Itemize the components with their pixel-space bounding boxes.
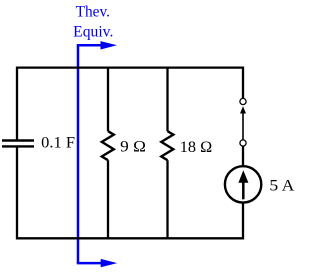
blue cut line vertical xyxy=(77,45,80,263)
capacitor 0.1 F xyxy=(2,141,34,147)
wire top xyxy=(16,66,244,68)
terminal node b (open circle) xyxy=(240,140,246,146)
wire right top stub xyxy=(242,67,244,99)
svg-text:5 A: 5 A xyxy=(269,178,295,195)
svg-text:0.1 F: 0.1 F xyxy=(41,134,75,151)
wire left upper segment xyxy=(16,67,18,141)
svg-text:Thev.: Thev. xyxy=(76,4,110,21)
resistor 18 ohm zigzag xyxy=(161,131,173,160)
wire 9-ohm branch top stub xyxy=(107,67,109,132)
wire left lower segment xyxy=(16,146,18,239)
wire 18-ohm branch top stub xyxy=(166,67,168,132)
wire 9-ohm branch bottom stub xyxy=(107,160,109,239)
terminal node a (open circle) xyxy=(240,98,246,104)
blue arrow top xyxy=(77,41,117,49)
current source arrow xyxy=(238,170,248,199)
current direction arrow between terminals xyxy=(240,106,246,140)
svg-text:Equiv.: Equiv. xyxy=(73,23,113,40)
wire bottom xyxy=(16,237,244,239)
svg-text:9 Ω: 9 Ω xyxy=(120,139,146,156)
current source I 5 A (circle) xyxy=(225,166,261,202)
wire right bottom stub xyxy=(242,202,244,239)
svg-text:18 Ω: 18 Ω xyxy=(180,139,212,156)
blue arrow bottom xyxy=(77,259,117,267)
wire right middle stub xyxy=(242,146,244,166)
wire 18-ohm branch bottom stub xyxy=(166,160,168,239)
resistor 9 ohm zigzag xyxy=(102,131,114,160)
